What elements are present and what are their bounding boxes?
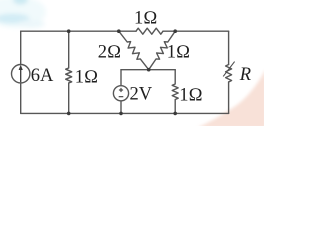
variable-resistor arrow through R	[223, 62, 234, 77]
node top-3	[173, 29, 177, 33]
wire outer top left segment	[21, 30, 136, 32]
svg-text:6A: 6A	[31, 66, 54, 86]
svg-text:1Ω: 1Ω	[75, 68, 98, 88]
arrow of current source 6A	[19, 65, 23, 83]
cyan highlight wash top-left	[0, 0, 46, 28]
wire outer right lower	[228, 82, 230, 113]
node bottom-3	[173, 112, 177, 116]
wire inner loop top	[121, 69, 175, 71]
svg-text:2V: 2V	[130, 84, 153, 104]
voltage source V1 2V circle	[113, 86, 128, 101]
wire outer top right segment	[163, 30, 229, 32]
wire outer bottom	[21, 112, 229, 114]
plus / minus of 2V source	[119, 88, 124, 97]
svg-text:1Ω: 1Ω	[167, 42, 190, 62]
node delta vertex	[147, 68, 151, 72]
node bottom-2	[119, 112, 123, 116]
wire outer left (through source)	[20, 31, 22, 113]
svg-text:1Ω: 1Ω	[179, 86, 202, 106]
resistor 1ohm right diagonal	[149, 31, 176, 69]
node top-1	[67, 29, 71, 33]
svg-text:2Ω: 2Ω	[98, 42, 121, 62]
junction nodes	[67, 29, 177, 115]
resistor 1ohm left branch	[66, 31, 72, 113]
svg-text:1Ω: 1Ω	[134, 8, 157, 28]
node bottom-1	[67, 112, 71, 116]
resistor 2ohm left diagonal	[119, 31, 149, 69]
current source U1 6A circle	[12, 65, 30, 83]
node top-2	[117, 29, 121, 33]
wire inner left upper	[120, 70, 122, 86]
wire outer right upper	[228, 31, 230, 64]
svg-text:R: R	[239, 65, 251, 85]
resistor 1ohm bottom branch	[172, 70, 178, 114]
peach corner watermark bottom-right	[197, 69, 266, 128]
resistor 1ohm top	[136, 28, 163, 34]
wire inner left lower	[120, 101, 122, 114]
resistor R right branch	[226, 65, 232, 83]
